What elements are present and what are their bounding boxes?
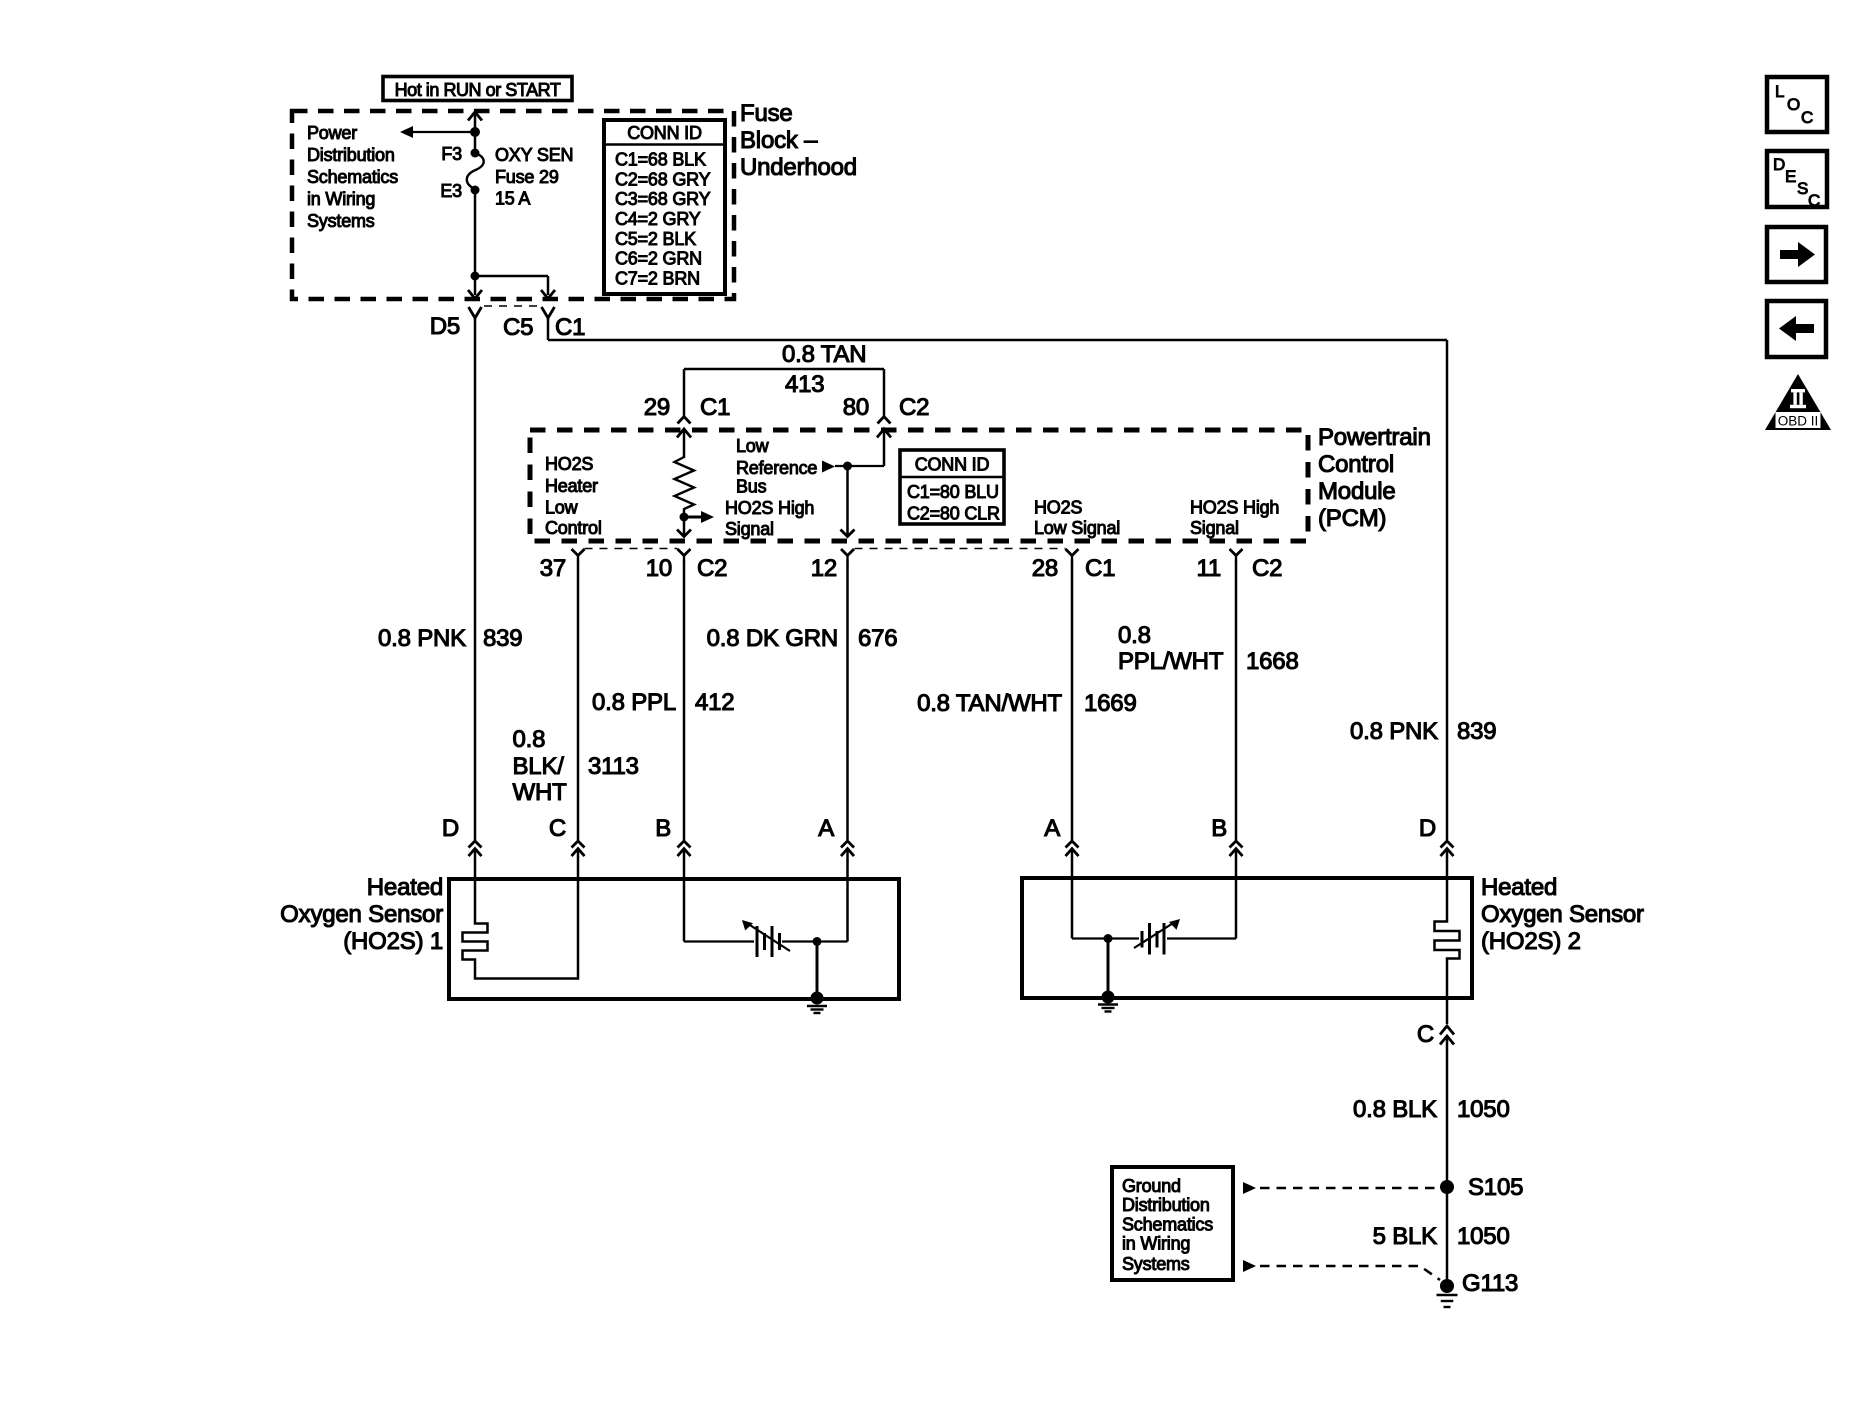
svg-text:Reference: Reference: [736, 458, 817, 478]
connector D5/C5: in-line connector symbols below fuse block: [469, 306, 555, 320]
text: A: [818, 815, 834, 842]
svg-text:HO2S High: HO2S High: [725, 498, 814, 518]
connector: pin 80 C2 entry: [878, 417, 891, 424]
label box: Hot in RUN or START: [383, 77, 572, 101]
svg-text:Fuse 29: Fuse 29: [495, 167, 559, 187]
svg-text:Heated: Heated: [1481, 874, 1557, 901]
wire: C1 feed across top to HO2S2 pin D: [548, 319, 1447, 840]
wire: HO2S1 pin B to sense element: [684, 881, 754, 942]
node: HO2S2 ground junction: [1104, 934, 1113, 943]
svg-text:CONN ID: CONN ID: [915, 455, 990, 475]
svg-text:C4=2 GRY: C4=2 GRY: [615, 209, 701, 229]
icon: back arrow box: [1767, 301, 1826, 357]
svg-text:C: C: [1801, 108, 1813, 127]
svg-text:D: D: [1773, 155, 1785, 174]
text: C: [549, 815, 566, 842]
heater element (HO2S1): [463, 881, 579, 979]
terminal arrow: HO2S1 pin B: [678, 841, 691, 879]
connector face dashes below PCM: [585, 548, 1066, 550]
text: E3 terminal: [440, 181, 462, 201]
svg-text:C2: C2: [899, 394, 929, 421]
arrow: up chevron inside PCM at pin 29: [677, 429, 691, 458]
text: B (HO2S2): [1211, 815, 1227, 842]
text: HO2S Heater Low Control: [545, 454, 602, 538]
terminal arrow: HO2S2 pin A: [1066, 841, 1079, 879]
svg-text:S105: S105: [1468, 1174, 1523, 1201]
text: HO2S High Signal (pin 10): [725, 498, 814, 539]
svg-text:D: D: [442, 815, 459, 842]
svg-text:Hot in RUN or START: Hot in RUN or START: [395, 80, 561, 100]
svg-text:A: A: [818, 815, 834, 842]
svg-text:Signal: Signal: [725, 519, 774, 539]
svg-text:Bus: Bus: [736, 477, 767, 497]
fuse block - underhood dashed border: [292, 111, 734, 299]
text: HO2S High Signal (pin 11): [1190, 498, 1279, 539]
text: D (HO2S2): [1419, 815, 1436, 842]
svg-text:PPL/WHT: PPL/WHT: [1118, 648, 1224, 675]
svg-text:C: C: [549, 815, 566, 842]
text: C1: [1085, 555, 1115, 582]
text: 80: [843, 394, 869, 421]
svg-text:Systems: Systems: [1122, 1254, 1190, 1274]
svg-text:HO2S High: HO2S High: [1190, 498, 1279, 518]
svg-text:Distribution: Distribution: [307, 145, 395, 165]
svg-text:Low: Low: [545, 498, 579, 518]
arrow: up chevron inside PCM at pin 80: [877, 429, 891, 438]
connector: pin 29 C1 entry: [678, 417, 691, 424]
text: 28: [1032, 555, 1058, 582]
text: 0.8 PPL 412: [592, 689, 734, 716]
svg-text:in Wiring: in Wiring: [1122, 1234, 1190, 1254]
text: A (HO2S2): [1044, 815, 1060, 842]
svg-text:S: S: [1797, 179, 1808, 198]
wire: down to case ground (HO2S2): [1107, 939, 1110, 995]
text: 0.8 PNK 839 (right wire label): [1350, 718, 1496, 745]
svg-text:Powertrain: Powertrain: [1318, 424, 1431, 451]
svg-text:C1=80 BLU: C1=80 BLU: [907, 482, 999, 502]
svg-text:412: 412: [695, 689, 734, 716]
svg-text:C2=80 CLR: C2=80 CLR: [907, 504, 1000, 524]
wire: 0.8 DK GRN 676 (pin 12 to HO2S1 A): [846, 561, 849, 841]
svg-text:28: 28: [1032, 555, 1058, 582]
text: C (HO2S2 pin): [1417, 1021, 1434, 1048]
svg-text:0.8: 0.8: [1118, 622, 1151, 649]
HO2S2 box: [1022, 878, 1472, 998]
arrow: dashed reference to S105: [1243, 1182, 1438, 1194]
svg-text:839: 839: [1457, 718, 1496, 745]
text: C2: [697, 555, 727, 582]
wire: resistor junction down to pin 10: [677, 517, 691, 537]
text: Fuse Block - Underhood: [740, 100, 857, 181]
text: C2: [899, 394, 929, 421]
icon: forward arrow box: [1767, 227, 1826, 282]
svg-text:Module: Module: [1318, 478, 1396, 505]
svg-text:(HO2S) 2: (HO2S) 2: [1481, 928, 1581, 955]
wire: 0.8 BLK/WHT 3113 (pin 37 to HO2S1 C): [577, 561, 580, 841]
PCM dashed box: [530, 430, 1308, 541]
arrow: HO2S High Signal pointer: [684, 511, 714, 523]
wire: branch right to C1 exit: [475, 276, 548, 295]
wire: feed from Hot bus into fuse block: [474, 112, 477, 153]
arrow: up chevron at fuse block top edge: [468, 112, 482, 121]
svg-text:0.8 BLK: 0.8 BLK: [1353, 1096, 1437, 1123]
arrow: down chevron at block bottom (C1 branch): [541, 290, 555, 299]
text: 11: [1196, 555, 1221, 582]
svg-text:WHT: WHT: [513, 779, 568, 806]
svg-text:Oxygen Sensor: Oxygen Sensor: [280, 901, 443, 928]
wire: fuse output down to junction: [474, 190, 477, 276]
text: OXY SEN Fuse 29 15 A: [495, 145, 573, 209]
svg-text:Control: Control: [545, 518, 602, 538]
svg-text:15 A: 15 A: [495, 189, 530, 209]
svg-text:C5=2 BLK: C5=2 BLK: [615, 229, 696, 249]
wire: bus junction down to pin 12: [841, 466, 855, 537]
svg-text:C3=68 GRY: C3=68 GRY: [615, 189, 711, 209]
text: 5 BLK 1050: [1373, 1223, 1510, 1250]
svg-text:676: 676: [858, 625, 897, 652]
svg-text:E3: E3: [440, 181, 462, 201]
text: D5: [430, 313, 460, 340]
arrow: down chevron at block bottom (D5): [468, 276, 482, 299]
wire: 5 BLK 1050 to ground: [1446, 1187, 1449, 1282]
terminal arrow: HO2S2 pin C: [1440, 1026, 1454, 1187]
ground: HO2S1 case ground: [807, 992, 827, 1014]
svg-text:HO2S: HO2S: [545, 454, 593, 474]
svg-text:413: 413: [785, 371, 824, 398]
svg-text:CONN ID: CONN ID: [627, 123, 702, 143]
svg-text:Schematics: Schematics: [1122, 1215, 1213, 1235]
terminal arrow: HO2S1 pin D: [469, 841, 482, 879]
node: junction at fuse block exit: [471, 272, 480, 281]
svg-text:in Wiring: in Wiring: [307, 189, 375, 209]
text: Power Distribution Schematics in Wiring Systems: [307, 123, 398, 231]
HO2S1 box: [449, 879, 899, 999]
svg-text:3113: 3113: [588, 753, 639, 780]
ground: HO2S2 case ground: [1098, 991, 1118, 1012]
svg-text:C1: C1: [555, 314, 585, 341]
svg-text:1050: 1050: [1457, 1096, 1510, 1123]
svg-text:C2: C2: [697, 555, 727, 582]
svg-text:C6=2 GRN: C6=2 GRN: [615, 249, 702, 269]
svg-text:C1=68 BLK: C1=68 BLK: [615, 150, 706, 170]
text: S105: [1468, 1174, 1523, 1201]
svg-text:BLK/: BLK/: [513, 753, 565, 780]
svg-text:839: 839: [483, 625, 522, 652]
svg-text:0.8 DK GRN: 0.8 DK GRN: [707, 625, 838, 652]
arrow: dashed reference to G113: [1243, 1260, 1440, 1280]
svg-text:0.8 PPL: 0.8 PPL: [592, 689, 676, 716]
fuse: OXY SEN Fuse 29 15A (terminals F3/E3): [467, 149, 484, 195]
wire: pin 80 down to low reference bus junction: [835, 429, 884, 466]
node: low reference bus junction: [843, 462, 852, 471]
text: Powertrain Control Module (PCM): [1318, 424, 1431, 532]
svg-text:12: 12: [811, 555, 837, 582]
svg-text:29: 29: [644, 394, 670, 421]
svg-text:0.8 PNK: 0.8 PNK: [1350, 718, 1438, 745]
svg-text:Ground: Ground: [1122, 1176, 1181, 1196]
svg-text:Power: Power: [307, 123, 357, 143]
wire: 0.8 TAN/WHT 1669 (pin 28 to HO2S2 A): [1071, 561, 1074, 841]
text: Heated Oxygen Sensor (HO2S) 1: [280, 874, 443, 955]
svg-text:A: A: [1044, 815, 1060, 842]
svg-text:(HO2S) 1: (HO2S) 1: [343, 928, 443, 955]
wire: down to case ground: [816, 942, 819, 996]
node: splice S105: [1440, 1180, 1454, 1194]
node: junction above fuse: [470, 127, 480, 137]
text: 0.8 DK GRN 676: [707, 625, 898, 652]
connector: pin 28 C1: [1066, 549, 1079, 562]
terminal arrow: HO2S1 pin A: [841, 841, 854, 879]
node: junction below resistor: [680, 513, 689, 522]
label box: Ground Distribution Schematics in Wiring Systems: [1112, 1167, 1233, 1280]
CONN ID table (PCM): [900, 450, 1004, 524]
text: 0.8 TAN/WHT 1669: [917, 690, 1137, 717]
text: Low Reference Bus: [736, 436, 817, 497]
svg-text:Block –: Block –: [740, 127, 818, 154]
connector: pin 37: [572, 549, 585, 562]
sensor element (variable galvanic cell, HO2S1): [742, 920, 790, 957]
wire: 0.8 TAN 413 loop between PCM pins 29 and 80: [684, 369, 884, 416]
svg-text:0.8 TAN/WHT: 0.8 TAN/WHT: [917, 690, 1062, 717]
wire: sense element to pin A with ground tap: [782, 881, 848, 942]
heater element (HO2S2): [1435, 880, 1460, 996]
text: 37: [540, 555, 566, 582]
svg-text:1050: 1050: [1457, 1223, 1510, 1250]
svg-text:C7=2 BRN: C7=2 BRN: [615, 269, 700, 289]
svg-text:0.8 PNK: 0.8 PNK: [378, 625, 466, 652]
svg-text:C: C: [1808, 191, 1820, 210]
wire: branch to power distribution (left arrow): [400, 126, 475, 138]
svg-text:Distribution: Distribution: [1122, 1195, 1210, 1215]
terminal arrow: HO2S1 pin C: [572, 841, 585, 879]
text: G113: [1462, 1270, 1518, 1297]
svg-text:Schematics: Schematics: [307, 167, 398, 187]
svg-text:Underhood: Underhood: [740, 154, 857, 181]
node: HO2S1 ground junction: [813, 937, 822, 946]
svg-text:1669: 1669: [1084, 690, 1137, 717]
text: HO2S Low Signal (pin 28): [1034, 498, 1120, 539]
svg-text:11: 11: [1196, 555, 1221, 582]
svg-text:OBD II: OBD II: [1778, 414, 1819, 429]
wire: heater return below HO2S2: [1446, 998, 1449, 1024]
svg-text:Heater: Heater: [545, 476, 598, 496]
svg-text:B: B: [655, 815, 671, 842]
text: 29: [644, 394, 670, 421]
svg-text:Heated: Heated: [367, 874, 443, 901]
text: 0.8 BLK/WHT 3113: [513, 726, 639, 806]
wire: sense element to pin B: [1167, 880, 1236, 939]
text: 0.8 PPL/WHT 1668: [1118, 622, 1299, 675]
svg-text:OXY SEN: OXY SEN: [495, 145, 573, 165]
svg-text:80: 80: [843, 394, 869, 421]
svg-text:Control: Control: [1318, 451, 1394, 478]
text: 413: [785, 371, 824, 398]
svg-text:F3: F3: [441, 144, 462, 164]
wire: 0.8 PPL/WHT 1668 (pin 11 to HO2S2 B): [1235, 561, 1238, 841]
CONN ID table (fuse block): [604, 120, 725, 294]
svg-text:Signal: Signal: [1190, 518, 1239, 538]
svg-text:(PCM): (PCM): [1318, 505, 1386, 532]
text: C5: [503, 314, 533, 341]
arrow: low reference bus pointer: [822, 461, 835, 473]
terminal arrow: HO2S2 pin D: [1441, 841, 1454, 879]
text: C2: [1252, 555, 1282, 582]
text: 0.8 PNK 839 (left wire label): [378, 625, 522, 652]
sensor element (variable galvanic cell, HO2S2): [1134, 919, 1180, 955]
text: 0.8 BLK 1050: [1353, 1096, 1510, 1123]
text: 10: [646, 555, 672, 582]
svg-text:HO2S: HO2S: [1034, 498, 1082, 518]
svg-text:1668: 1668: [1246, 648, 1299, 675]
svg-text:L: L: [1775, 82, 1784, 101]
icon: OBD II triangle: [1765, 374, 1831, 430]
svg-text:C2=68 GRY: C2=68 GRY: [615, 169, 711, 189]
icon: LOC box: [1767, 77, 1827, 132]
text: B: [655, 815, 671, 842]
svg-text:0.8: 0.8: [513, 726, 546, 753]
wire: HO2S2 pin A to sense element: [1072, 880, 1139, 939]
text: Heated Oxygen Sensor (HO2S) 2: [1481, 874, 1644, 955]
svg-text:C: C: [1417, 1021, 1434, 1048]
icon: DESC box: [1767, 151, 1827, 210]
svg-text:Systems: Systems: [307, 211, 375, 231]
svg-text:5 BLK: 5 BLK: [1373, 1223, 1438, 1250]
svg-text:0.8 TAN: 0.8 TAN: [782, 341, 866, 368]
connector: pin 10 C2: [678, 549, 691, 562]
svg-text:C2: C2: [1252, 555, 1282, 582]
wire: 0.8 PPL 412 (pin 10 to HO2S1 B): [683, 561, 686, 841]
svg-text:O: O: [1787, 95, 1800, 114]
resistor: HO2S heater low control pull (inside PCM): [675, 457, 695, 517]
svg-text:Low: Low: [736, 436, 770, 456]
connector: pin 11 C2: [1230, 549, 1243, 562]
svg-text:C1: C1: [700, 394, 730, 421]
svg-text:D5: D5: [430, 313, 460, 340]
text: D: [442, 815, 459, 842]
connector: pin 12: [841, 549, 854, 562]
text: 12: [811, 555, 837, 582]
svg-text:37: 37: [540, 555, 566, 582]
svg-text:D: D: [1419, 815, 1436, 842]
svg-text:G113: G113: [1462, 1270, 1518, 1297]
svg-text:Fuse: Fuse: [740, 100, 793, 127]
svg-text:C5: C5: [503, 314, 533, 341]
ground: G113: [1437, 1279, 1458, 1307]
svg-text:Low Signal: Low Signal: [1034, 518, 1120, 538]
svg-text:B: B: [1211, 815, 1227, 842]
svg-text:10: 10: [646, 555, 672, 582]
svg-text:E: E: [1785, 167, 1796, 186]
text: 0.8 TAN: [782, 341, 866, 368]
text: F3 terminal: [441, 144, 462, 164]
text: C1: [700, 394, 730, 421]
wire: 0.8 PNK 839 from fuse D5 down to HO2S1 pin D: [474, 319, 477, 840]
terminal arrow: HO2S2 pin B: [1230, 841, 1243, 879]
text: C1: [555, 314, 585, 341]
svg-text:Oxygen Sensor: Oxygen Sensor: [1481, 901, 1644, 928]
svg-text:C1: C1: [1085, 555, 1115, 582]
